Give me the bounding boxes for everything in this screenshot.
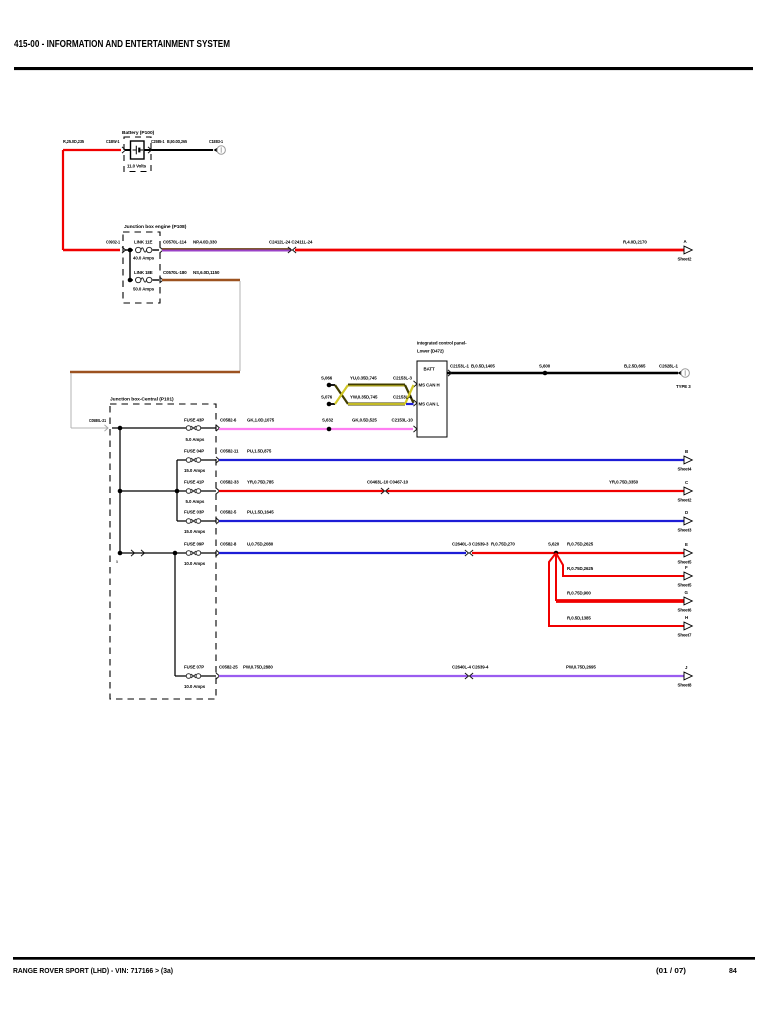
wire stub S066 [329,384,335,386]
svg-text:C0932-1: C0932-1 [106,240,121,245]
eyelet terminal C1E83-1 [209,139,225,154]
svg-text:C0570L-114: C0570L-114 [163,240,187,245]
connector C0463L-10 C0467-10 inline [381,488,389,494]
wire label YU,0.35D,745 [350,376,377,381]
battery left stub wire [125,149,131,151]
wire row6 PW,0.75D,2880 violet [219,675,684,677]
wire label R,0.75D,2625 row E [567,542,594,547]
wire into LINK 18E [130,279,133,281]
connector C0570L-180 label [163,270,187,275]
connector C0582-25 chevron [216,673,220,679]
wire label U,0.75D,2080 [247,542,274,547]
splice S,632 [322,418,334,432]
wire fuse07P out [201,675,216,677]
wire NS,6.0D,1150 brown [162,279,240,281]
wire row5 feed [120,552,186,554]
twisted pair right cross [405,385,414,404]
svg-text:FUSE 43P: FUSE 43P [184,418,204,423]
connector C0570L-114 chevron [160,247,164,253]
pin MS CAN L label [419,402,440,407]
wire label R,0.5D,1385 [567,616,591,621]
ground eyelet C2628L-1 TYPE 3 [659,364,691,390]
wire row4 PU,1.5D,1645 blue [219,520,684,522]
wire LINK11E to C0570L-114 [153,249,160,251]
connector C0570L-180 chevron [160,277,164,283]
wire branch to row H red [549,553,684,626]
junction box central dashed box P101 [110,404,216,699]
pin chevron MS CAN L [414,400,418,406]
wire R,0.75D,270 red [472,552,684,554]
battery bracket dashed [124,137,151,172]
connector C0932-1 chevron [122,247,126,253]
svg-text:TYPE 3: TYPE 3 [676,384,691,389]
svg-text:Sheet7: Sheet7 [678,633,693,638]
svg-text:MS CAN L: MS CAN L [419,402,440,407]
svg-text:C2153L-4: C2153L-4 [393,395,413,400]
wire bus B vertical [176,460,178,521]
connector C0463L-10 C0467-10 label [367,480,409,485]
wire label R,0.75D,900 [567,591,591,596]
svg-text:F: F [685,565,688,570]
svg-text:Junction box engine (P108): Junction box engine (P108) [124,224,187,230]
svg-text:R,0.75D,900: R,0.75D,900 [567,591,591,596]
wire NP,4.0D,330 purple/brown [162,249,291,251]
wire label R,4.0D,2170 [623,240,647,245]
twisted pair left cross [335,385,348,404]
svg-text:(01 / 07): (01 / 07) [656,968,686,975]
battery U1 box [131,141,145,159]
wire NS brown lower horizontal [70,371,240,373]
svg-text:Sheet2: Sheet2 [678,498,693,503]
wire stub S076 [329,403,335,405]
wire row3 feed [120,490,186,492]
svg-text:Sheet5: Sheet5 [678,583,693,588]
splice S,066 [321,376,333,388]
off-page arrow B Sheet4 [678,449,693,472]
inline connector chevrons row5 [131,550,145,556]
wire R,0.75D,900 thick red [556,599,684,603]
battery B+ wire B,50.0D,265 [144,149,213,151]
wire blue tip MS CAN L [406,403,414,405]
wire label B,2.5D,665 [624,364,646,369]
node bus dot row1 [118,426,123,431]
svg-text:FUSE 03P: FUSE 03P [184,510,204,515]
wire bus engine vertical [129,250,131,280]
connector C2153L-4 label [393,395,413,400]
svg-text:5.0 Amps: 5.0 Amps [186,499,205,504]
wire label R,0.75D,2625 row F [567,566,594,571]
svg-text:C2412L-24 C2411L-24: C2412L-24 C2411L-24 [269,240,313,245]
svg-text:Sheet3: Sheet3 [678,528,693,533]
svg-text:R,0.75D,2625: R,0.75D,2625 [567,542,594,547]
wire bus A vertical [119,428,121,553]
svg-text:FUSE 41P: FUSE 41P [184,480,204,485]
svg-text:11.0 Volts: 11.0 Volts [127,164,147,169]
connector C0582-33 label [220,480,239,485]
footer rule [13,957,755,960]
svg-text:GK,1.0D,1075: GK,1.0D,1075 [247,418,275,423]
svg-text:C0570L-180: C0570L-180 [163,270,187,275]
battery voltage label [127,164,147,169]
node junction dot bus engine [128,248,133,253]
svg-text:40.0 Amps: 40.0 Amps [133,256,155,261]
svg-text:B,50.0D,265: B,50.0D,265 [167,139,188,144]
svg-text:PW,0.75D,2695: PW,0.75D,2695 [566,665,596,670]
connector C2640L-3 C2639-3 label [452,542,489,547]
svg-text:Battery (P100): Battery (P100) [122,130,155,136]
svg-text:R,0.75D,270: R,0.75D,270 [491,542,515,547]
svg-text:FUSE 04P: FUSE 04P [184,449,204,454]
svg-text:D: D [685,510,688,515]
connector C0582-11 chevron [216,457,220,463]
svg-text:5: 5 [116,560,118,564]
wire YU,0.35D,745 top band [348,384,405,388]
svg-text:C0582-6: C0582-6 [220,418,237,423]
fuse LINK 18E [133,270,155,292]
wire label YR,0.75D,785 [247,480,274,485]
wire branch to row F red [556,553,684,576]
ICP title [417,341,467,354]
wire link vertical gray right [239,281,241,371]
connector C2640L-4 C2639-4 inline [465,673,473,679]
connector C0582-8 chevron [216,550,220,556]
svg-text:LINK 18E: LINK 18E [134,270,153,275]
wire BATT black B,0.5D,1405 [447,372,678,375]
svg-text:Sheet8: Sheet8 [678,683,693,688]
wire battery red horizontal R,25.0D,235 [63,149,121,151]
svg-text:Integrated control panel-: Integrated control panel- [417,341,467,346]
svg-text:C2153L-10: C2153L-10 [392,418,414,423]
svg-text:Sheet4: Sheet4 [678,467,693,472]
svg-text:S,632: S,632 [322,418,334,423]
pin chevron C2153L-10 [414,426,418,432]
connector C0582-8 label [220,542,237,547]
wire YW,0.35D,745 bottom band [348,403,405,406]
svg-text:FUSE 07P: FUSE 07P [184,665,204,670]
svg-text:50.0 Amps: 50.0 Amps [133,287,155,292]
off-page arrow G Sheet6 [678,590,693,613]
svg-text:YU,0.35D,745: YU,0.35D,745 [350,376,377,381]
connector C0582-33 chevron [216,488,220,494]
wire battery feed red vertical [62,150,64,250]
wire fuse04P out [201,459,216,461]
svg-text:C0580L-21: C0580L-21 [89,418,107,423]
svg-text:C0582-5: C0582-5 [220,510,237,515]
off-page arrow H Sheet7 [678,615,693,638]
connector C2153L-1 label [450,364,470,369]
svg-text:RANGE ROVER SPORT (LHD) - VIN: RANGE ROVER SPORT (LHD) - VIN: 717166 > … [13,968,173,975]
svg-text:MS CAN H: MS CAN H [419,383,440,388]
connector C0582-6 label [220,418,237,423]
wire row2 PU,1.5D,875 blue [219,459,684,461]
battery P100 label [122,130,155,136]
wire red feed into C0932-1 [63,249,120,251]
splice S,600 [539,364,551,376]
svg-text:R,0.75D,2625: R,0.75D,2625 [567,566,594,571]
svg-text:S,076: S,076 [321,395,333,400]
svg-text:U,0.75D,2080: U,0.75D,2080 [247,542,274,547]
wire label PU,1.5D,875 [247,449,272,454]
footer page number [729,968,737,975]
off-page arrow D Sheet3 [678,510,693,533]
connector C0582-11 label [220,449,239,454]
wire link vertical gray left [70,373,72,428]
svg-text:C2640L-4 C2639-4: C2640L-4 C2639-4 [452,665,489,670]
connector C0570L-114 label [163,240,187,245]
wire label R,25.0D,235 [63,139,85,144]
battery cell symbol [133,146,144,155]
svg-text:15.0 Amps: 15.0 Amps [184,529,206,534]
wire into LINK 11E [125,249,133,251]
pin chevron MS CAN H [414,381,418,387]
op module ICP D472 box [417,361,447,437]
fuse FUSE 41P [184,480,205,505]
connector C2412L-24 C2411L-24 label [269,240,313,245]
header title [14,38,230,50]
svg-text:PU,1.5D,1645: PU,1.5D,1645 [247,510,274,515]
connector C2153L-10 label [392,418,414,423]
svg-text:R,4.0D,2170: R,4.0D,2170 [623,240,647,245]
svg-text:B: B [685,449,688,454]
junction box engine dashed box P108 [123,232,160,303]
wire label GK,0.5D,525 [352,418,377,423]
svg-text:C0582-11: C0582-11 [220,449,239,454]
svg-text:15.0 Amps: 15.0 Amps [184,468,206,473]
footer sheet number [656,968,686,975]
connector C0582-5 chevron [216,518,220,524]
svg-text:C2153L-3: C2153L-3 [393,376,413,381]
svg-text:LINK 11E: LINK 11E [134,240,153,245]
off-page arrow F Sheet5 [678,565,693,588]
wire label NS,6.0D,1150 [193,270,220,275]
svg-text:FUSE 09P: FUSE 09P [184,542,204,547]
fuse FUSE 07P [184,665,206,690]
wire label PW,0.75D,2695 [566,665,596,670]
fuse FUSE 09P [184,542,206,567]
connector C0582-6 chevron [216,425,220,431]
svg-text:BATT: BATT [424,367,435,372]
node bus dot row5 right [173,551,178,556]
node bus dot row3 [118,489,123,494]
svg-text:Sheet2: Sheet2 [678,257,693,262]
svg-text:YR,0.75D,785: YR,0.75D,785 [247,480,274,485]
off-page arrow C Sheet2 [678,480,693,503]
svg-text:YR,0.75D,3350: YR,0.75D,3350 [609,480,639,485]
svg-text:C0582-33: C0582-33 [220,480,239,485]
footer left text [13,968,173,975]
svg-text:Sheet5: Sheet5 [678,560,693,565]
svg-text:C2153L-1: C2153L-1 [450,364,470,369]
wire LINK18E to C0570L-180 [153,279,160,281]
connector C2640L-3 C2639-3 inline [465,550,473,556]
wire label PW,0.75D,2880 [243,665,273,670]
connector C0580L-2 label [89,418,107,423]
node bus dot row5 [118,551,123,556]
wire label YR,0.75D,3350 [609,480,639,485]
svg-text:NS,6.0D,1150: NS,6.0D,1150 [193,270,220,275]
connector C0582-25 label [219,665,238,670]
svg-text:Sheet6: Sheet6 [678,608,693,613]
svg-text:B,2.5D,665: B,2.5D,665 [624,364,646,369]
svg-text:E: E [685,542,688,547]
wire label GK,1.0D,1075 [247,418,275,423]
wire R,4.0D,2170 main red feed [295,249,684,252]
wire label YW,0.35D,745 [350,395,378,400]
fuse LINK 11E [133,240,155,261]
svg-text:S,620: S,620 [548,542,560,547]
svg-text:10.0 Amps: 10.0 Amps [184,684,206,689]
splice S,620 [548,542,560,556]
svg-text:PW,0.75D,2880: PW,0.75D,2880 [243,665,273,670]
wire label B,50.0D,265 [167,139,188,144]
pin MS CAN H label [419,383,440,388]
connector C2585-1 label [151,139,165,144]
off-page arrow J Sheet8 [678,665,693,688]
svg-text:C0463L-10 C0467-10: C0463L-10 C0467-10 [367,480,409,485]
connector C1BW-1 label [106,139,120,144]
svg-text:C2585-1: C2585-1 [151,139,165,144]
svg-text:YW,0.35D,745: YW,0.35D,745 [350,395,378,400]
pin BATT label [424,367,435,372]
svg-text:C1BW-1: C1BW-1 [106,139,120,144]
wire row2 feed [177,459,186,461]
fuse FUSE 43P [184,418,205,443]
junction box central label [110,397,174,403]
connector C1BW-1 chevron [122,147,126,153]
svg-text:R,25.0D,235: R,25.0D,235 [63,139,85,144]
pin chevron BATT [448,370,452,376]
svg-text:C2628L-1: C2628L-1 [659,364,679,369]
svg-text:415-00 - INFORMATION AND ENTER: 415-00 - INFORMATION AND ENTERTAINMENT S… [14,38,230,50]
svg-text:C0582-8: C0582-8 [220,542,237,547]
wire row4 feed [177,520,186,522]
svg-text:S,600: S,600 [539,364,551,369]
wire label B,0.5D,1405 [471,364,495,369]
svg-text:S,066: S,066 [321,376,333,381]
svg-text:H: H [685,615,688,620]
wire fuse09P out [201,552,216,554]
wire row5 U,0.75D,2080 blue [219,552,466,554]
svg-text:NP,4.0D,330: NP,4.0D,330 [193,240,217,245]
wire bus C vertical [174,553,176,676]
off-page arrow A Sheet2 [678,239,693,262]
svg-text:84: 84 [729,968,737,975]
wire fuse41P out [201,490,216,492]
splice S,076 [321,395,333,407]
header rule [14,67,753,70]
svg-text:C1E83-1: C1E83-1 [209,139,224,144]
wire row1 feed [112,427,186,429]
connector C2153L-3 label [393,376,413,381]
svg-text:PU,1.5D,875: PU,1.5D,875 [247,449,272,454]
wire fuse43P out [201,427,216,429]
svg-text:5.0 Amps: 5.0 Amps [186,437,205,442]
wire label PU,1.5D,1645 [247,510,274,515]
junction box engine label [124,224,187,230]
svg-text:R,0.5D,1385: R,0.5D,1385 [567,616,591,621]
svg-text:C2640L-3 C2639-3: C2640L-3 C2639-3 [452,542,489,547]
connector C2585-1 chevron [148,147,152,153]
connector C2640L-4 C2639-4 label [452,665,489,670]
tiny bus label 5 [116,560,118,564]
wire row3 YR,0.75D,785 red [219,490,684,492]
connector C2412L-24 C2411L-24 inline [288,247,296,253]
svg-text:C0582-25: C0582-25 [219,665,238,670]
svg-text:B,0.5D,1405: B,0.5D,1405 [471,364,495,369]
wire fuse03P out [201,520,216,522]
wire row1 GK,1.0D,1075 pink [219,428,413,430]
off-page arrow E Sheet5 [678,542,693,565]
svg-text:Junction box-Central (P101): Junction box-Central (P101) [110,397,174,403]
connector C0932-1 label [106,240,121,245]
wire link gray into C0580L-2 [71,427,108,429]
wire label R,0.75D,270 [491,542,515,547]
svg-text:Lower (D472): Lower (D472) [417,349,444,354]
node bus dot row3 crossing [175,489,180,494]
node junction dot LINK18E [128,278,133,283]
wire label NP,4.0D,330 [193,240,217,245]
svg-text:GK,0.5D,525: GK,0.5D,525 [352,418,377,423]
connector C0580L-2 chevron [105,425,109,431]
wire branch to row G red vertical [555,553,557,601]
svg-text:10.0 Amps: 10.0 Amps [184,561,206,566]
connector C0582-5 label [220,510,237,515]
wire row6 feed [175,675,186,677]
fuse FUSE 03P [184,510,206,535]
fuse FUSE 04P [184,449,206,474]
